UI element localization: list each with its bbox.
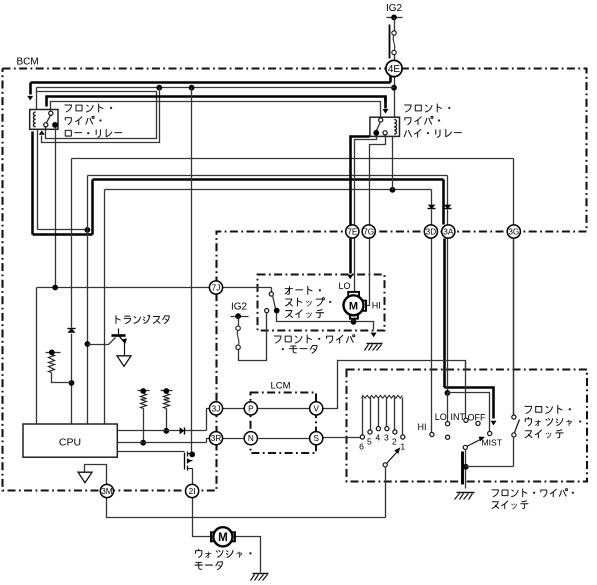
svg-text:IG2: IG2	[231, 302, 248, 313]
svg-text:HI: HI	[418, 422, 427, 432]
svg-text:CPU: CPU	[59, 437, 81, 449]
svg-text:2: 2	[392, 437, 397, 447]
svg-text:2I: 2I	[189, 487, 196, 496]
svg-text:IG2: IG2	[386, 3, 403, 14]
svg-text:V: V	[313, 404, 319, 413]
svg-text:7G: 7G	[363, 227, 374, 236]
svg-text:3G: 3G	[508, 227, 519, 236]
svg-text:P: P	[248, 404, 254, 413]
svg-text:HI: HI	[372, 300, 381, 310]
svg-text:LCM: LCM	[270, 380, 290, 391]
svg-text:OFF: OFF	[468, 413, 486, 423]
svg-text:LO: LO	[339, 281, 351, 291]
svg-text:5: 5	[367, 437, 372, 447]
svg-text:MIST: MIST	[482, 438, 503, 448]
svg-text:4E: 4E	[388, 64, 401, 75]
svg-text:LO: LO	[435, 412, 447, 422]
svg-text:3J: 3J	[212, 404, 221, 413]
svg-text:M: M	[349, 300, 358, 312]
svg-text:7E: 7E	[347, 227, 358, 236]
svg-text:3: 3	[384, 433, 389, 443]
svg-text:3R: 3R	[211, 434, 222, 443]
svg-text:S: S	[313, 434, 319, 443]
svg-text:4: 4	[375, 433, 380, 443]
svg-text:M: M	[218, 532, 228, 544]
svg-text:3M: 3M	[101, 487, 113, 496]
svg-text:1: 1	[400, 442, 405, 452]
svg-text:BCM: BCM	[17, 57, 39, 68]
svg-text:6: 6	[359, 442, 364, 452]
svg-text:7J: 7J	[212, 283, 221, 292]
svg-text:N: N	[248, 434, 254, 443]
svg-text:3D: 3D	[426, 227, 437, 236]
svg-text:3A: 3A	[443, 227, 454, 236]
